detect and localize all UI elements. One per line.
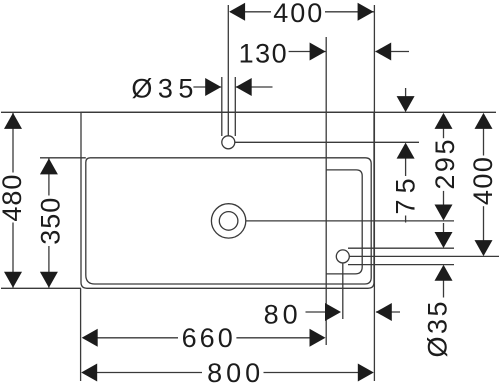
svg-text:75: 75 — [391, 172, 421, 214]
svg-text:295: 295 — [430, 137, 460, 190]
svg-text:660: 660 — [182, 323, 236, 353]
svg-text:400: 400 — [468, 156, 498, 206]
svg-text:480: 480 — [0, 174, 27, 222]
svg-text:130: 130 — [239, 39, 289, 69]
svg-text:Ø35: Ø35 — [131, 74, 199, 104]
svg-text:80: 80 — [264, 300, 302, 330]
svg-text:350: 350 — [36, 197, 66, 245]
svg-text:Ø35: Ø35 — [422, 299, 452, 358]
svg-text:400: 400 — [273, 0, 324, 28]
svg-text:800: 800 — [207, 358, 264, 388]
